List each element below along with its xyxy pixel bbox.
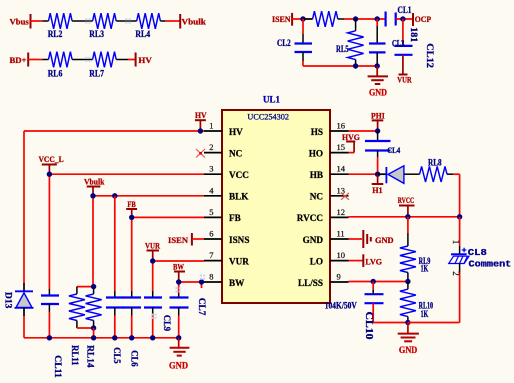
pin 1 HV — [204, 121, 243, 137]
svg-text:BW: BW — [173, 261, 184, 271]
pin 11 GND — [303, 229, 349, 245]
power port VUR top-right — [397, 55, 412, 85]
wire RL7 to HV — [128, 59, 136, 61]
node CL10 branch — [371, 279, 376, 284]
svg-text:4: 4 — [209, 185, 214, 195]
wire ISNS net — [192, 238, 204, 240]
power port RVCC — [398, 195, 415, 217]
capacitor CL3 — [392, 19, 413, 55]
svg-text:OCP: OCP — [415, 14, 431, 24]
svg-text:H1: H1 — [372, 185, 382, 195]
svg-text:13: 13 — [337, 185, 346, 195]
svg-text:RL2: RL2 — [48, 29, 63, 39]
svg-text:104K/50V: 104K/50V — [325, 300, 357, 310]
label CL10 — [363, 312, 374, 340]
svg-text:HVG: HVG — [342, 132, 360, 142]
label Comment — [469, 259, 512, 269]
node RL5 bottom — [353, 63, 358, 68]
wire Vbus to RL2 — [31, 20, 43, 22]
node RL11 RL14 bottom — [91, 325, 96, 330]
resistor RL9 — [400, 217, 431, 282]
label CL7 — [197, 298, 207, 316]
svg-text:RL11: RL11 — [70, 345, 80, 366]
power port FB — [126, 199, 137, 218]
label CL9 — [162, 315, 172, 332]
svg-text:RL7: RL7 — [89, 69, 104, 79]
diode D13 — [15, 283, 34, 316]
node RVCC rail corner — [457, 214, 462, 219]
svg-text:UCC254302: UCC254302 — [247, 113, 289, 122]
resistor RL8 — [404, 157, 453, 182]
port H1 — [372, 174, 384, 195]
svg-text:CL12: CL12 — [424, 43, 434, 68]
pin 2 CL8 — [451, 271, 461, 276]
wire VUR net — [153, 261, 204, 338]
svg-text:RL5: RL5 — [336, 44, 349, 54]
svg-text:10: 10 — [337, 250, 346, 260]
svg-text:RL14: RL14 — [86, 345, 96, 368]
node CL5 branch — [112, 193, 117, 198]
pin 16 HS — [311, 121, 349, 137]
svg-text:CL8: CL8 — [468, 248, 487, 258]
node rail CL5 — [112, 335, 117, 340]
capacitor CL7 — [170, 294, 189, 316]
svg-text:HV: HV — [229, 127, 243, 137]
no-connect X pin 13 — [341, 193, 349, 200]
svg-text:15: 15 — [337, 142, 346, 152]
label CL11 — [53, 355, 63, 378]
resistor RL5 — [336, 19, 364, 66]
resistor RL7 — [82, 52, 128, 79]
svg-text:CL10: CL10 — [363, 312, 374, 340]
pin 14 HB — [310, 164, 349, 180]
node rail end — [375, 63, 380, 68]
svg-text:CL3: CL3 — [392, 38, 405, 48]
resistor RL4 — [126, 13, 166, 39]
svg-text:ISEN: ISEN — [272, 14, 291, 24]
wire HV net — [24, 131, 204, 338]
svg-text:1: 1 — [451, 240, 461, 245]
wire HB net — [349, 173, 378, 175]
node cap top — [375, 16, 380, 21]
capacitor CL6 — [123, 298, 141, 316]
node rail CL6 — [129, 335, 134, 340]
pin 7 VUR — [204, 250, 249, 266]
svg-text:6: 6 — [209, 229, 213, 239]
node RL10 bottom — [405, 320, 410, 325]
wire RL4 to Vbulk — [166, 20, 181, 22]
power port VUR left — [145, 240, 161, 261]
svg-text:GND: GND — [375, 235, 394, 245]
svg-text:Vbulk: Vbulk — [84, 176, 105, 186]
svg-text:11: 11 — [337, 229, 345, 239]
pin 15 HO — [309, 142, 349, 158]
svg-text:2: 2 — [451, 271, 461, 276]
svg-text:VCC_L: VCC_L — [39, 154, 64, 164]
wire RVCC net — [349, 216, 460, 218]
svg-text:CL4: CL4 — [387, 146, 400, 155]
ground GND top-right — [368, 66, 388, 98]
svg-text:CL6: CL6 — [129, 350, 139, 367]
svg-text:HS: HS — [311, 127, 323, 137]
no-connect X pin 2 — [196, 149, 205, 158]
node RL9 RL10 junction — [405, 279, 410, 284]
port HV at pin1 — [195, 110, 207, 131]
node RVCC junction — [405, 214, 410, 219]
svg-text:14: 14 — [337, 164, 346, 174]
svg-text:Vbulk: Vbulk — [182, 17, 207, 27]
label 104K/50V — [325, 300, 357, 310]
pin 1 CL8 — [451, 240, 461, 245]
capacitor CL10 — [365, 282, 408, 323]
label D13 — [3, 292, 13, 309]
svg-text:BD+: BD+ — [10, 55, 27, 65]
wire ISEN rail — [292, 18, 386, 20]
svg-text:PHI: PHI — [371, 111, 385, 121]
svg-text:GND: GND — [303, 235, 324, 245]
svg-text:HO: HO — [309, 148, 323, 158]
svg-text:NC: NC — [310, 192, 323, 202]
ground GND bottom-right — [398, 323, 419, 356]
node rail CL11 — [47, 335, 52, 340]
svg-text:FB: FB — [229, 213, 241, 223]
svg-text:D13: D13 — [3, 292, 13, 309]
capacitor CL1 — [386, 5, 412, 26]
svg-text:LVG: LVG — [365, 256, 382, 266]
wire LL/SS net — [349, 281, 408, 283]
svg-text:12: 12 — [337, 207, 346, 217]
capacitor CL8 polarized — [449, 217, 469, 272]
svg-text:RL3: RL3 — [89, 29, 104, 39]
svg-text:GND: GND — [399, 345, 418, 355]
capacitor CL2 — [277, 19, 312, 66]
grid marks bottom — [151, 275, 205, 319]
svg-text:RL4: RL4 — [135, 29, 150, 39]
port HV top — [136, 53, 153, 67]
svg-text:CL1: CL1 — [398, 5, 412, 15]
svg-text:181: 181 — [409, 27, 419, 43]
wire ground rail top-right — [303, 65, 377, 67]
resistor series unlabeled — [303, 11, 344, 27]
svg-text:RVCC: RVCC — [297, 213, 323, 223]
svg-text:1K: 1K — [421, 264, 429, 274]
ground port GND pin11 — [349, 230, 394, 248]
power port VCC_L — [39, 154, 64, 174]
grid marks row2 — [85, 57, 90, 62]
svg-text:RL6: RL6 — [48, 69, 63, 79]
node FB junction — [129, 215, 134, 220]
power port BW — [173, 261, 185, 282]
pin 2 NC — [204, 142, 242, 158]
label CL12 — [424, 43, 434, 68]
port LVG — [349, 254, 383, 267]
svg-text:VCC: VCC — [229, 170, 249, 180]
svg-text:BW: BW — [229, 278, 245, 288]
svg-text:2: 2 — [209, 142, 213, 152]
svg-text:1: 1 — [209, 121, 213, 131]
svg-text:8: 8 — [209, 272, 213, 282]
wire RL14 to rail — [93, 328, 95, 338]
svg-text:FB: FB — [127, 199, 136, 209]
label CL5 — [112, 347, 122, 364]
pin 6 ISNS — [204, 229, 249, 245]
port ISEN top — [272, 13, 292, 26]
power port PHI — [371, 111, 385, 131]
svg-text:LO: LO — [310, 256, 323, 266]
svg-text:7: 7 — [209, 250, 213, 260]
pin 5 FB — [204, 207, 241, 223]
wire RL8 to RVCC rail — [453, 174, 460, 217]
node RL5 top — [353, 16, 358, 21]
svg-text:CL2: CL2 — [277, 38, 291, 48]
resistor RL14 — [86, 287, 102, 328]
svg-text:RL8: RL8 — [428, 157, 442, 167]
node BW pin junction — [199, 279, 204, 284]
svg-text:HV: HV — [195, 110, 207, 120]
resistor RL3 — [82, 13, 126, 39]
pin 9 LL/SS — [298, 272, 349, 288]
svg-text:VUR: VUR — [397, 75, 412, 85]
svg-text:CL5: CL5 — [112, 347, 122, 364]
svg-text:HB: HB — [310, 170, 323, 180]
svg-text:CL11: CL11 — [53, 355, 63, 378]
resistor RL2 — [42, 13, 82, 39]
wire FB net — [132, 217, 204, 337]
wire CL8 bottom — [408, 272, 460, 323]
node HB junction — [375, 172, 380, 177]
svg-text:9: 9 — [337, 272, 341, 282]
wire BW net — [179, 282, 204, 338]
node VCC_L junction — [47, 172, 52, 177]
svg-text:NC: NC — [229, 148, 242, 158]
op-amp U1 IC UL1 UCC254302 — [222, 95, 330, 304]
label 181 — [409, 27, 419, 43]
capacitor CL4 — [365, 131, 400, 174]
svg-text:VUR: VUR — [229, 256, 249, 266]
capacitor CL9 — [144, 298, 162, 316]
diode D HB — [378, 166, 404, 184]
svg-text:16: 16 — [337, 121, 346, 131]
svg-text:HV: HV — [138, 55, 152, 65]
pin 4 BLK — [204, 185, 249, 201]
node VUR junction — [150, 258, 155, 263]
port ISEN left — [168, 233, 192, 246]
label CL6 — [129, 350, 139, 367]
svg-text:BLK: BLK — [229, 192, 249, 202]
svg-text:CL9: CL9 — [162, 315, 172, 332]
label RL14 — [86, 345, 96, 368]
capacitor CL5 — [106, 196, 124, 338]
node BW junction — [176, 279, 181, 284]
pin 3 VCC — [204, 164, 249, 180]
wire bottom ground rail — [24, 337, 179, 339]
node ISEN junction — [300, 16, 305, 21]
pin 13 NC — [310, 185, 349, 201]
svg-text:Comment: Comment — [469, 259, 512, 269]
wire VCC net — [49, 174, 204, 338]
wire BLK net — [93, 196, 204, 287]
port HVG — [342, 132, 360, 153]
svg-text:CL7: CL7 — [197, 298, 207, 316]
resistor RL6 — [42, 52, 82, 79]
resistor RL10 — [400, 282, 433, 323]
svg-text:5: 5 — [209, 207, 213, 217]
grid marks row1 — [85, 18, 130, 23]
capacitor CL3a — [369, 19, 386, 66]
pin 8 BW — [204, 272, 245, 288]
svg-text:1K: 1K — [421, 309, 429, 319]
power port Vbulk left — [84, 176, 105, 196]
svg-text:ISEN: ISEN — [168, 235, 189, 245]
svg-text:ISNS: ISNS — [229, 235, 249, 245]
svg-text:UL1: UL1 — [263, 95, 280, 105]
svg-text:RVCC: RVCC — [398, 195, 415, 205]
svg-text:3: 3 — [209, 164, 213, 174]
node HV port junction — [198, 128, 203, 133]
pin 12 RVCC — [297, 207, 349, 223]
wire CL1 to OCP — [396, 18, 413, 20]
wire BD+ to RL6 — [28, 59, 42, 61]
port BD+ — [10, 53, 29, 67]
wire HO net — [349, 152, 355, 154]
svg-text:GND: GND — [369, 88, 387, 98]
ground GND bottom-center — [169, 338, 189, 371]
capacitor CL11 — [41, 289, 59, 312]
svg-text:Vbus: Vbus — [10, 17, 30, 27]
node Vbulk junction — [90, 193, 95, 198]
label CL8 — [468, 248, 487, 258]
label RL11 — [70, 345, 80, 366]
wire HS net — [349, 130, 378, 132]
resistor RL11 — [69, 287, 94, 328]
port OCP — [413, 13, 431, 26]
node PHI junction — [375, 128, 380, 133]
pin 10 LO — [310, 250, 349, 266]
node OCP junction — [400, 16, 405, 21]
node RL11 RL14 top — [91, 284, 96, 289]
svg-text:GND: GND — [169, 360, 188, 370]
svg-text:LL/SS: LL/SS — [298, 278, 323, 288]
node rail RL14 — [91, 335, 96, 340]
svg-text:VUR: VUR — [145, 240, 161, 250]
node rail CL9 — [150, 335, 155, 340]
node rail CL7 — [176, 335, 181, 340]
port Vbulk — [180, 14, 206, 29]
port Vbus — [10, 14, 31, 29]
